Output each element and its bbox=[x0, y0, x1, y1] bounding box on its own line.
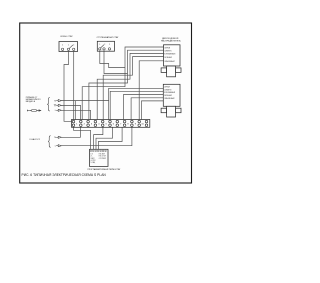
svg-text:ВВОДА 3 А: ВВОДА 3 А bbox=[26, 100, 36, 103]
svg-text:ОТОП ВКЛ: ОТОП ВКЛ bbox=[99, 158, 106, 160]
svg-text:5 ОБЩ: 5 ОБЩ bbox=[91, 162, 96, 164]
svg-text:3 ВКЛ: 3 ВКЛ bbox=[91, 158, 95, 160]
svg-text:КОМН. СТАТ: КОМН. СТАТ bbox=[60, 35, 73, 38]
svg-text:ГВС ОТКЛ: ГВС ОТКЛ bbox=[99, 156, 106, 158]
svg-text:СТУПЕНЧАТЫЙ СТАТ: СТУПЕНЧАТЫЙ СТАТ bbox=[97, 36, 120, 39]
svg-text:4 ОТКЛ: 4 ОТКЛ bbox=[91, 160, 96, 162]
svg-text:РИС. 6 ТИПИЧНАЯ ЭЛЕКТРИЧЕСКАЯ: РИС. 6 ТИПИЧНАЯ ЭЛЕКТРИЧЕСКАЯ СХЕМА S PL… bbox=[22, 173, 107, 177]
svg-text:2 L: 2 L bbox=[91, 156, 93, 158]
svg-text:К НАСОСУ: К НАСОСУ bbox=[30, 138, 41, 141]
svg-text:1 N: 1 N bbox=[91, 153, 93, 155]
svg-text:РАСПРЕДЕЛИТЕЛЬ: РАСПРЕДЕЛИТЕЛЬ bbox=[161, 40, 182, 43]
svg-text:ПРОГРАММИРУЕМЫЙ ТЕРМОСТАТ: ПРОГРАММИРУЕМЫЙ ТЕРМОСТАТ bbox=[88, 168, 122, 171]
svg-text:ГВС ВКЛ: ГВС ВКЛ bbox=[99, 153, 105, 155]
